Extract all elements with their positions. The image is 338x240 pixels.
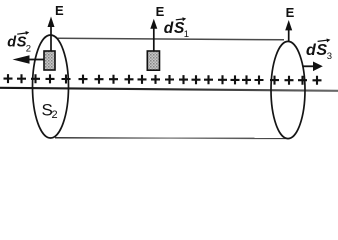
svg-text:d: d — [164, 20, 174, 37]
svg-text:3: 3 — [327, 51, 332, 62]
svg-text:1: 1 — [184, 29, 189, 40]
cylinder top edge — [57, 38, 284, 40]
svg-text:E: E — [286, 5, 295, 20]
cylinder bottom edge — [55, 137, 286, 140]
label dS1 with vector bar — [164, 17, 189, 40]
svg-text:E: E — [55, 3, 64, 18]
right end-cap ellipse — [271, 41, 305, 138]
E field arrow middle — [150, 19, 157, 51]
area element square dS2 on left cap — [44, 51, 55, 70]
E field arrow left — [48, 17, 55, 52]
svg-text:2: 2 — [52, 109, 58, 121]
charged line (axis wire) — [0, 88, 338, 91]
area element square dS1 on curved surface — [147, 51, 159, 70]
row of plus charges on the wire — [4, 74, 322, 85]
area vector arrow dS2 (points left) — [13, 55, 45, 63]
label dS2 with vector bar — [7, 31, 31, 55]
label dS3 with vector bar — [306, 39, 332, 62]
svg-text:2: 2 — [26, 44, 31, 55]
label S2 inside left end cap — [42, 101, 58, 122]
svg-text:E: E — [156, 4, 165, 19]
left end-cap ellipse S2 — [33, 35, 69, 138]
svg-text:S: S — [316, 42, 327, 59]
area vector arrow dS3 (points right) — [303, 62, 323, 72]
svg-text:d: d — [7, 35, 17, 51]
E field arrow right — [285, 20, 292, 42]
svg-text:d: d — [306, 42, 317, 59]
